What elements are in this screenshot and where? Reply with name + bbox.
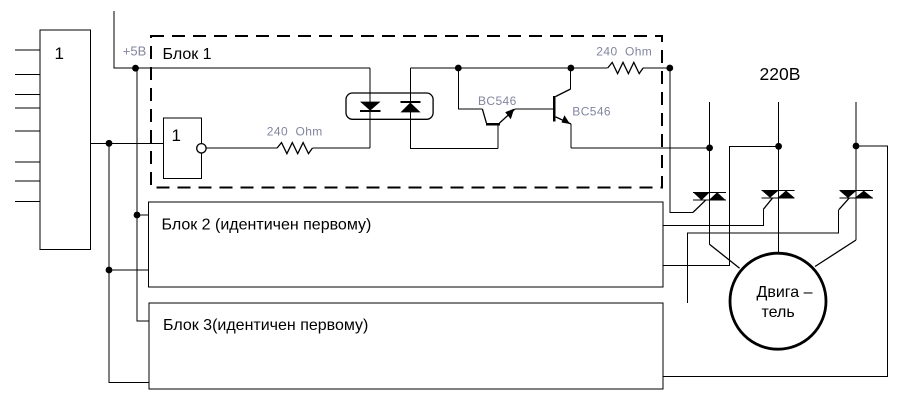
wire chip to inverter input xyxy=(91,142,164,144)
transistor Q2 emitter arrow xyxy=(562,115,571,124)
wire phase C return to Block 3 xyxy=(664,146,888,377)
wire R1 to optocoupler LED cathode xyxy=(312,147,370,149)
svg-text:Блок 1: Блок 1 xyxy=(163,46,212,63)
inverter output bubble xyxy=(197,144,206,153)
wire gate1 diagonal into triac VS1 xyxy=(693,200,706,212)
wire gate3 from Block 3 xyxy=(688,210,839,303)
triac VS1 left triangle xyxy=(693,192,710,200)
triac VS1 top line xyxy=(693,191,726,193)
svg-text:Двига –: Двига – xyxy=(757,284,813,301)
wire phase B return to Block 2 xyxy=(663,146,779,265)
IC pin 1 xyxy=(15,49,40,51)
transistor Q1 emitter arrow xyxy=(505,109,514,120)
transistor Q2 collector lead vertical xyxy=(570,68,572,89)
junction dot T1 collector xyxy=(455,65,462,72)
transistor Q1 collector diagonal xyxy=(482,109,486,123)
transistor Q1 collector lead xyxy=(458,68,482,109)
triac VS1 bottom line xyxy=(693,199,726,201)
junction dot Block2 feed xyxy=(134,212,141,219)
triac VS2 bottom line xyxy=(762,197,795,199)
triac VS3 right triangle xyxy=(855,191,873,198)
wire Q1 emitter to Q2 base xyxy=(515,108,554,110)
transistor Q2 collector diagonal xyxy=(556,89,571,97)
junction dot input xyxy=(106,140,113,147)
wire gate3 diagonal into triac VS3 xyxy=(839,198,850,210)
IC pin 6 xyxy=(15,161,40,163)
junction dot phase C xyxy=(853,143,860,150)
triac VS2 top line xyxy=(762,190,795,192)
wire Q2 emitter to phase A xyxy=(571,147,710,149)
wire +5V stub xyxy=(114,11,370,68)
wire phase B feed xyxy=(778,102,780,253)
box Block 2 xyxy=(149,202,664,287)
svg-text:240 Ohm: 240 Ohm xyxy=(267,124,323,138)
optocoupler U2 LED pin line xyxy=(369,68,371,148)
wire gate1 vertical drop xyxy=(670,68,693,212)
triac VS3 bottom line xyxy=(839,197,873,199)
junction dot phase A xyxy=(706,145,713,152)
wire phase C diagonal to motor xyxy=(815,240,856,267)
wire phase A diagonal to motor xyxy=(710,244,740,268)
optocoupler LED triangle xyxy=(360,102,381,111)
junction dot phase B xyxy=(775,143,782,150)
IC pin 3 xyxy=(15,94,40,96)
svg-text:тель: тель xyxy=(762,304,795,321)
transistor Q2 emitter diagonal xyxy=(556,117,571,124)
IC chip box (left, "1") xyxy=(40,30,91,250)
wire gate2 from Block 2 xyxy=(663,209,763,225)
resistor R1 240 Ohm zigzag xyxy=(277,143,312,154)
optocoupler U2 body xyxy=(346,93,433,119)
motor M circle xyxy=(730,253,826,349)
wire +5V branch down to Block2 xyxy=(137,68,149,215)
wire inverter output xyxy=(206,147,277,149)
junction dot input branch xyxy=(106,267,113,274)
wire phase C feed xyxy=(855,102,857,240)
IC pin 7 xyxy=(15,180,40,182)
junction dot +5V rail xyxy=(132,65,139,72)
triac VS3 left triangle xyxy=(839,191,856,198)
IC pin 8 xyxy=(15,200,40,202)
wire input branch down xyxy=(109,143,150,382)
svg-text:240 Ohm: 240 Ohm xyxy=(596,45,652,59)
svg-text:+5В: +5В xyxy=(123,43,147,58)
triac VS3 top line xyxy=(839,190,873,192)
svg-text:Блок 2 (идентичен первому): Блок 2 (идентичен первому) xyxy=(162,216,372,233)
inverter U1 box xyxy=(164,118,202,178)
transistor Q1 emitter diagonal xyxy=(499,109,514,123)
wire gate2 diagonal into triac VS2 xyxy=(763,198,772,210)
optocoupler LED cathode bar xyxy=(360,110,381,112)
svg-text:1: 1 xyxy=(55,44,64,63)
IC pin 5 xyxy=(15,130,40,132)
wire phase A feed xyxy=(709,102,711,244)
wire R2 to gate corner xyxy=(643,67,670,69)
triac VS1 right triangle xyxy=(709,192,726,200)
optocoupler detector pin to T1 base xyxy=(410,68,498,148)
IC pin 2 xyxy=(15,73,40,75)
triac VS2 right triangle xyxy=(778,191,795,198)
svg-text:220В: 220В xyxy=(760,64,801,84)
transistor Q1 base bar xyxy=(486,123,500,126)
svg-text:BC546: BC546 xyxy=(478,94,517,108)
wire input branch to Block2 xyxy=(109,269,149,271)
triac VS2 left triangle xyxy=(762,191,779,198)
transistor Q2 emitter lead vertical xyxy=(570,124,572,148)
dashed box Block 1 xyxy=(151,36,662,188)
junction dot gate1 feed xyxy=(666,65,673,72)
IC pin 4 xyxy=(15,107,40,109)
transistor Q1 base lead down xyxy=(497,125,499,148)
resistor R2 240 Ohm zigzag xyxy=(608,62,643,73)
svg-text:Блок 3(идентичен первому): Блок 3(идентичен первому) xyxy=(163,317,368,334)
box Block 3 xyxy=(149,303,663,389)
optocoupler detector triangle xyxy=(401,103,421,113)
svg-text:BC546: BC546 xyxy=(572,105,611,119)
optocoupler detector cathode bar xyxy=(401,101,421,103)
wire top rail right xyxy=(410,67,607,69)
wire +5V branch continuation to Block3 xyxy=(137,215,149,321)
junction dot T2 collector xyxy=(568,65,575,72)
transistor Q2 base bar xyxy=(553,96,556,122)
svg-text:1: 1 xyxy=(172,126,181,145)
